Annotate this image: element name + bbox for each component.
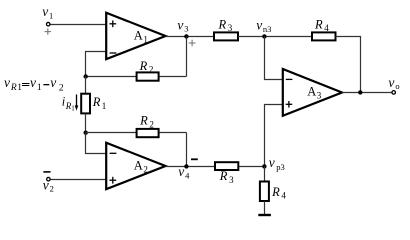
svg-text:2: 2: [59, 83, 64, 93]
wire R3 to R4: [238, 36, 312, 38]
svg-text:2: 2: [149, 65, 154, 75]
node output junction: [358, 90, 362, 94]
plus polarity at v1: [45, 28, 51, 34]
wire v1 input: [50, 24, 106, 26]
wire v4 branch down: [186, 133, 188, 167]
svg-text:3: 3: [184, 24, 188, 34]
terminal vo: [392, 91, 396, 95]
svg-text:2: 2: [149, 119, 154, 129]
node vn3 label: [256, 17, 271, 34]
op-amp A3: [283, 69, 342, 116]
wire A2 output to R3: [166, 166, 216, 168]
svg-text:1: 1: [71, 105, 75, 113]
svg-text:R: R: [92, 95, 101, 109]
wire A3 output: [342, 92, 392, 94]
terminal v1: [46, 22, 50, 26]
svg-text:2: 2: [50, 184, 54, 194]
node v4 label: [178, 164, 190, 181]
svg-text:1: 1: [37, 83, 42, 93]
ground: [258, 214, 271, 216]
svg-text:v: v: [4, 75, 10, 90]
svg-text:n3: n3: [263, 24, 272, 34]
wire vp3 down to R4: [264, 167, 266, 182]
resistor R4 (bottom): [260, 182, 287, 202]
wire vn3 down to A3 inverting input: [265, 37, 283, 80]
svg-text:R: R: [314, 17, 323, 31]
svg-text:3: 3: [229, 175, 234, 185]
resistor R2 (top): [137, 59, 159, 81]
svg-text:A: A: [134, 158, 143, 172]
svg-text:v: v: [269, 155, 275, 170]
svg-text:A: A: [307, 85, 316, 99]
current arrow iR1: [62, 95, 79, 113]
wire A2 rail to vp3: [238, 166, 264, 168]
svg-text:3: 3: [317, 91, 322, 101]
svg-text:2: 2: [143, 164, 148, 174]
resistor R1: [81, 94, 106, 114]
svg-text:p3: p3: [276, 162, 285, 172]
svg-text:v: v: [30, 75, 36, 90]
resistor R2 (bottom): [137, 114, 159, 138]
terminal v2: [47, 177, 51, 181]
svg-text:v: v: [42, 4, 48, 19]
svg-text:4: 4: [281, 191, 286, 201]
svg-text:v: v: [177, 17, 183, 32]
minus polarity at v2: [43, 171, 50, 173]
wire junction to R1: [85, 77, 87, 94]
node vn3: [262, 34, 266, 38]
wire v2 input: [51, 179, 106, 181]
node v1 label: [42, 4, 53, 20]
node v4: [184, 164, 188, 168]
svg-text:R: R: [218, 17, 227, 31]
svg-text:R: R: [10, 83, 17, 93]
svg-text:4: 4: [324, 23, 329, 33]
svg-text:4: 4: [185, 171, 190, 181]
svg-text:v: v: [256, 17, 262, 32]
node v2 label: [43, 177, 54, 193]
svg-text:v: v: [43, 177, 49, 192]
wire A3 noninverting input to vp3: [265, 105, 283, 167]
wire R1 to lower junction: [85, 113, 87, 132]
node vp3: [262, 164, 266, 168]
wire lower feedback rail to R2: [86, 132, 137, 134]
svg-text:A: A: [134, 28, 143, 42]
svg-text:3: 3: [228, 23, 233, 33]
wire v3 down to feedback rail: [186, 37, 188, 77]
junction node B: [84, 131, 88, 135]
svg-text:v: v: [50, 75, 56, 90]
svg-text:1: 1: [49, 11, 53, 21]
op-amp A1: [106, 13, 165, 60]
svg-text:R: R: [219, 169, 228, 183]
junction node A: [84, 74, 88, 78]
svg-text:1: 1: [17, 83, 22, 93]
svg-text:o: o: [395, 81, 399, 91]
wire feedback rail to R2: [86, 76, 137, 78]
svg-text:1: 1: [102, 101, 107, 111]
wire R4 to feedback corner: [336, 37, 361, 93]
resistor R4 (top): [312, 17, 336, 40]
node vo label: [388, 75, 399, 91]
wire R4 to ground: [264, 201, 266, 215]
minus polarity at v4: [191, 158, 198, 160]
wire A1 output to R3: [166, 36, 215, 38]
op-amp A2: [106, 143, 165, 190]
wire junction to A2 inverting input: [86, 133, 107, 154]
wire A1 inverting input: [86, 52, 107, 77]
svg-text:1: 1: [143, 34, 148, 44]
node v3 label: [177, 17, 188, 33]
label vR1 = v1 - v2: [4, 75, 64, 93]
node v3: [184, 34, 188, 38]
plus polarity at v3: [189, 40, 196, 47]
node vp3 label: [269, 155, 285, 172]
svg-text:R: R: [271, 185, 280, 199]
svg-text:v: v: [388, 75, 394, 90]
resistor R3 (top): [214, 17, 238, 40]
svg-text:R: R: [139, 114, 148, 128]
svg-text:R: R: [139, 59, 148, 73]
svg-text:v: v: [178, 164, 184, 179]
resistor R3 (bottom): [215, 162, 238, 185]
wire R2 to v4 branch: [159, 132, 187, 134]
wire R2 to v3 branch: [159, 76, 187, 78]
